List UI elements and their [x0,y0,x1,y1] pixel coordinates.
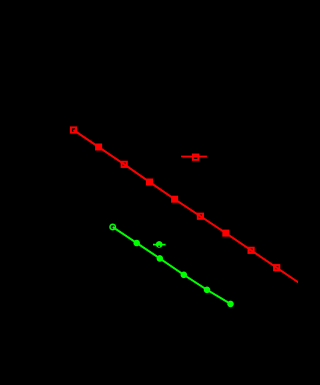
red marker R6 (open square) [198,214,203,219]
red series line [74,130,303,285]
red legend marker (open square) [193,155,198,160]
red legend line [181,156,207,158]
green marker G3 (filled circle) [157,255,164,262]
red marker R7 (filled square) [222,230,229,237]
green marker G1 (open circle) [110,224,115,229]
green marker G5 (filled circle) [204,287,211,294]
red marker R3 (open square) [122,162,127,167]
red marker R2 (filled square) [95,144,102,151]
red marker R8 (open square) [249,248,254,253]
green marker G4 (filled circle) [181,272,188,279]
green marker G2 (filled circle) [133,240,140,247]
red marker R5 (filled square) [171,196,178,203]
red marker R9 (open square) [274,265,279,270]
green marker G6 (filled circle) [227,301,234,308]
red marker R4 (filled square) [146,179,153,186]
red marker R1 (open square) [71,127,76,132]
green series line [113,227,231,304]
green legend line [153,244,166,246]
green legend marker (circle with small bottom hole) [156,241,163,248]
